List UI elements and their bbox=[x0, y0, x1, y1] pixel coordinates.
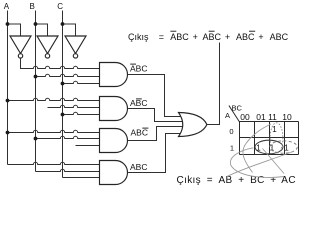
arc AC term to solid group (line) bbox=[263, 149, 285, 174]
svg-text:A: A bbox=[225, 111, 230, 120]
wire A to gate2 input1 bbox=[8, 98, 100, 100]
junction dot node B bbox=[34, 22, 38, 26]
top equation Cikis = ABC terms bbox=[128, 32, 289, 42]
svg-text:1: 1 bbox=[230, 143, 234, 152]
svg-text:ABC: ABC bbox=[236, 32, 255, 42]
svg-text:Çıkış: Çıkış bbox=[177, 175, 202, 186]
AND gate G3 bbox=[100, 129, 128, 153]
svg-text:ABC: ABC bbox=[203, 32, 222, 42]
wire B to gate1 input2 bbox=[36, 74, 100, 76]
svg-text:ABC: ABC bbox=[270, 32, 289, 42]
svg-text:ABC: ABC bbox=[170, 32, 189, 42]
column headers bbox=[240, 112, 292, 122]
wire C to gate2 input3 bbox=[63, 112, 100, 114]
wire gate1 output to OR bbox=[128, 75, 183, 117]
svg-text:=: = bbox=[159, 32, 164, 42]
AND gate G4 bbox=[100, 161, 128, 185]
wire branch A to inverter bbox=[8, 24, 21, 36]
group ellipse BC dotted bbox=[270, 123, 283, 153]
wire OR output to equation bbox=[207, 43, 220, 125]
wire B to gate3 input2 bbox=[36, 136, 100, 138]
svg-text:=: = bbox=[207, 175, 213, 186]
wire Bbar to gate2 input2 bbox=[48, 105, 100, 107]
junction dot C/gate2 bbox=[61, 113, 65, 117]
svg-text:ABC: ABC bbox=[131, 127, 148, 137]
junction dot A/gate2 bbox=[6, 99, 10, 103]
junction dot C/gate1 bbox=[61, 82, 65, 86]
svg-text:A: A bbox=[4, 2, 10, 11]
svg-text:1: 1 bbox=[272, 125, 277, 134]
wire gate4 output to OR bbox=[128, 134, 183, 173]
svg-text:+: + bbox=[225, 32, 230, 42]
junction dot B/gate1 bbox=[34, 75, 38, 79]
svg-text:1: 1 bbox=[284, 143, 289, 152]
svg-text:01: 01 bbox=[256, 112, 266, 122]
svg-text:00: 00 bbox=[240, 112, 250, 122]
AND gate G2 bbox=[100, 97, 128, 121]
wire Abar to gate1 input1 bbox=[21, 58, 100, 68]
svg-text:10: 10 bbox=[282, 112, 292, 122]
wire Cbar to gate3 input3 bbox=[76, 145, 100, 147]
junction dot node A bbox=[6, 22, 10, 26]
wire branch B to inverter bbox=[36, 24, 48, 36]
svg-text:+: + bbox=[193, 32, 198, 42]
wire gate2 output to OR bbox=[128, 109, 183, 122]
group ellipse AC solid bbox=[255, 140, 283, 154]
arc BC term to dotted group bbox=[243, 124, 271, 173]
overbar on B of term2 bbox=[209, 30, 215, 32]
wire C to gate4 input3 bbox=[63, 177, 100, 179]
svg-text:0: 0 bbox=[229, 127, 233, 136]
wire branch C to inverter bbox=[63, 24, 76, 36]
wire rail B bbox=[35, 11, 37, 172]
overbar on A of term1 bbox=[170, 30, 176, 32]
inverter U3 (C inverter) bbox=[65, 36, 86, 54]
AND gate G1 bbox=[100, 63, 128, 87]
svg-text:+: + bbox=[258, 32, 263, 42]
svg-text:ABC: ABC bbox=[130, 98, 147, 108]
svg-text:+: + bbox=[238, 175, 244, 186]
svg-text:AB: AB bbox=[219, 175, 233, 186]
svg-text:ABC: ABC bbox=[130, 63, 147, 73]
inverter U2 (B inverter) bbox=[37, 36, 58, 54]
junction dot A/gate3 bbox=[6, 131, 10, 135]
svg-text:C: C bbox=[57, 2, 63, 11]
wire rail A bbox=[7, 11, 9, 165]
wire A to gate3 input1 bbox=[8, 130, 100, 132]
OR gate U4 bbox=[179, 113, 207, 137]
wire B to gate4 input2 bbox=[36, 169, 100, 171]
svg-text:ABC: ABC bbox=[130, 162, 147, 172]
svg-text:Çıkış: Çıkış bbox=[128, 32, 149, 42]
wire C to gate1 input3 bbox=[63, 81, 100, 83]
group ellipse AB dashed bbox=[270, 141, 298, 153]
junction dot node C bbox=[61, 22, 65, 26]
wire rail C bbox=[62, 11, 64, 178]
arc AB term to dashed group bbox=[227, 152, 293, 177]
arc AC sweep to solid group bbox=[230, 148, 284, 178]
inverter U1 (A inverter) bbox=[10, 36, 31, 54]
svg-text:11: 11 bbox=[268, 112, 277, 122]
karnaugh map grid bbox=[240, 122, 299, 155]
junction dot B/gate3 bbox=[34, 137, 38, 141]
overbar on C of term3 bbox=[249, 30, 255, 32]
svg-text:B: B bbox=[30, 2, 35, 11]
bottom equation Cikis = AB + BC + AC bbox=[177, 175, 296, 186]
wire A to gate4 input1 bbox=[8, 162, 100, 164]
wire gate3 output to OR bbox=[128, 127, 183, 141]
karnaugh map diagonal bbox=[229, 106, 239, 122]
